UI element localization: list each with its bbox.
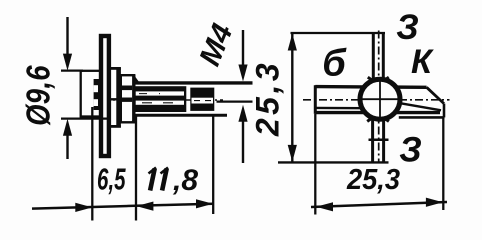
svg-text:Ø9,6: Ø9,6	[20, 65, 57, 126]
svg-text:25,3: 25,3	[250, 60, 286, 137]
svg-text:,8: ,8	[172, 164, 198, 197]
svg-text:25,3: 25,3	[346, 164, 400, 196]
svg-text:З: З	[396, 8, 419, 47]
svg-text:б: б	[322, 43, 347, 85]
svg-text:К: К	[411, 43, 434, 81]
svg-text:6,5: 6,5	[97, 163, 126, 197]
svg-text:З: З	[399, 130, 422, 169]
